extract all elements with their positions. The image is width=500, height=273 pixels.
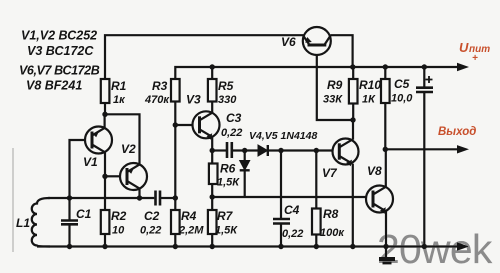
- wire: V3 base lead: [175, 124, 192, 126]
- resistor R10: [359, 67, 390, 149]
- wire: V4 to V7 base: [269, 149, 333, 151]
- wire: V2 collector down to tank wire: [138, 189, 140, 198]
- resistor R9: [323, 67, 358, 120]
- node: C1 bottom: [67, 244, 72, 249]
- transistor V3: [186, 93, 220, 140]
- node: V3 emitter / C3 / R6 junction: [210, 148, 215, 153]
- node: V7 emitter bottom: [350, 244, 355, 249]
- wire: V7 collector up: [352, 120, 354, 140]
- svg-text:U: U: [459, 40, 469, 55]
- svg-text:C1: C1: [76, 207, 92, 221]
- wire: R3 bottom down through V3 base to R4 top: [174, 102, 176, 211]
- svg-text:R8: R8: [323, 207, 339, 221]
- svg-text:100к: 100к: [320, 227, 345, 239]
- bottom rail arrow head: [457, 242, 469, 250]
- wire: V6 base down and right to R9 bottom: [317, 55, 353, 120]
- svg-text:330: 330: [218, 94, 237, 106]
- parts list text: [19, 29, 100, 93]
- wire: supply rail 2 from R3 top to Uпит arrow: [175, 67, 461, 79]
- node: R10 top on rail 2: [383, 64, 388, 69]
- wire: V8 collector up to output node: [385, 149, 387, 187]
- node: R7 bottom: [210, 244, 215, 249]
- svg-text:1,5К: 1,5К: [217, 177, 240, 189]
- diode V4: [249, 130, 317, 156]
- svg-text:470к: 470к: [144, 94, 170, 106]
- resistor R2: [101, 209, 127, 247]
- svg-text:R3: R3: [152, 79, 168, 93]
- svg-text:1К: 1К: [362, 94, 376, 106]
- resistor R7: [208, 197, 238, 247]
- wire: V1 base left and down to tank: [70, 140, 86, 198]
- wire: top rail from R1 top to V6 emitter: [105, 35, 304, 79]
- transistor V2: [120, 142, 147, 190]
- wire: output line to arrow: [385, 148, 461, 150]
- svg-text:V7: V7: [322, 166, 338, 180]
- svg-text:Выход: Выход: [438, 126, 476, 138]
- svg-text:V1: V1: [83, 155, 98, 169]
- wire: V2 base lead: [105, 175, 120, 177]
- svg-text:V6,V7 ВС172В: V6,V7 ВС172В: [19, 64, 100, 78]
- svg-text:V4,V5 1N4148: V4,V5 1N4148: [249, 130, 317, 142]
- ground: [379, 247, 395, 264]
- node: R4 bottom: [173, 244, 178, 249]
- transistor V8: [366, 164, 393, 214]
- node: V2 base tap: [102, 174, 107, 179]
- svg-text:0,22: 0,22: [221, 127, 242, 139]
- resistor R6: [209, 151, 240, 198]
- node: V8 emitter / ground: [383, 244, 388, 249]
- inductor L1: [16, 198, 50, 247]
- wire: R5 top lead: [211, 67, 213, 79]
- node: V5 tap: [242, 148, 247, 153]
- svg-text:0,22: 0,22: [282, 228, 303, 240]
- svg-text:V3 ВС172С: V3 ВС172С: [27, 44, 94, 58]
- Выход arrow head: [457, 145, 469, 153]
- wire: R1 bottom to junction: [104, 103, 106, 114]
- wire: R5 bottom to V3 collector: [211, 102, 213, 113]
- transistor V7: [322, 139, 359, 181]
- svg-text:V8 BF241: V8 BF241: [26, 79, 82, 93]
- capacitor C3: [212, 111, 242, 158]
- wire: V8 emitter down to bottom rail: [385, 211, 387, 246]
- node: V3 base tap: [173, 122, 178, 127]
- node: C2/R4/R3 junction: [173, 195, 178, 200]
- svg-text:1,5К: 1,5К: [215, 225, 238, 237]
- resistor R4: [171, 209, 204, 247]
- node: R10 bottom / V8 collector / output: [383, 147, 388, 152]
- node: C4 bottom: [278, 244, 283, 249]
- svg-text:+: +: [472, 53, 478, 64]
- resistor R3: [144, 79, 180, 106]
- svg-text:R4: R4: [181, 209, 197, 223]
- node: R5 top on rail 2: [210, 64, 215, 69]
- svg-text:R6: R6: [220, 162, 236, 176]
- watermark 20wek: [377, 226, 492, 273]
- svg-text:V3: V3: [186, 93, 201, 107]
- resistor R5: [208, 79, 237, 106]
- node: V1 base / C1 on tank wire: [67, 195, 72, 200]
- scan fold line (decorative): [12, 148, 14, 252]
- wire: C3 to diode V4: [233, 149, 258, 151]
- svg-text:V8: V8: [367, 164, 382, 178]
- node: R6/R7 junction: [210, 194, 215, 199]
- transistor V6: [281, 27, 331, 55]
- node: C5 bottom: [422, 244, 427, 249]
- node: R1/V1 emitter/V2 emitter junction: [102, 112, 107, 117]
- wire: V1 emitter up: [103, 114, 105, 128]
- svg-text:2,2М: 2,2М: [178, 225, 204, 237]
- svg-text:R9: R9: [327, 78, 343, 92]
- svg-text:R7: R7: [217, 209, 234, 223]
- wire: junction to V8 base: [212, 196, 366, 198]
- wire: V6 collector right and down to rail 2: [331, 35, 353, 67]
- node: V2 collector on tank wire: [137, 195, 142, 200]
- svg-text:V1,V2 ВС252: V1,V2 ВС252: [21, 29, 97, 43]
- capacitor C2: [140, 191, 175, 237]
- svg-text:V2: V2: [121, 142, 136, 156]
- wire: V1 collector down to R2: [104, 152, 106, 210]
- wire: V3 emitter down to C3 junction: [211, 137, 213, 150]
- svg-text:C4: C4: [284, 203, 300, 217]
- node: R8 tap / V7 base: [314, 148, 319, 153]
- svg-text:R5: R5: [218, 79, 234, 93]
- wire: bottom common rail: [37, 245, 461, 247]
- wire: tank top wire (coil to C2 left plate): [48, 197, 154, 199]
- transistor V1: [83, 127, 112, 170]
- svg-text:R1: R1: [111, 79, 127, 93]
- svg-text:33К: 33К: [323, 94, 343, 106]
- node: R9 bottom / V6 base / V7 collector: [350, 117, 355, 122]
- node: R8 bottom: [314, 244, 319, 249]
- svg-text:C2: C2: [144, 209, 160, 223]
- capacitor C1: [61, 198, 92, 247]
- svg-text:R2: R2: [111, 209, 127, 223]
- capacitor C4: [273, 151, 303, 247]
- svg-text:L1: L1: [16, 216, 30, 230]
- svg-text:R10: R10: [359, 78, 381, 92]
- net label Uпит: [459, 40, 490, 64]
- svg-text:C5: C5: [394, 77, 410, 91]
- capacitor C5: [391, 67, 433, 247]
- resistor R8: [312, 151, 345, 247]
- wire: V7 emitter down to bottom rail: [352, 164, 354, 247]
- node: R2 bottom: [102, 244, 107, 249]
- svg-text:10,0: 10,0: [391, 93, 413, 105]
- wire: junction to V2 emitter column: [105, 114, 140, 165]
- resistor R1: [101, 79, 127, 106]
- node: V6 collector / R9 top on rail 2: [350, 64, 355, 69]
- diode V5: [240, 151, 250, 198]
- node: C4 tap: [278, 148, 283, 153]
- svg-text:V6: V6: [281, 35, 296, 49]
- svg-text:0,22: 0,22: [140, 225, 161, 237]
- svg-text:10: 10: [112, 225, 125, 237]
- svg-text:1к: 1к: [113, 94, 126, 106]
- node: C5 top on rail 2: [422, 64, 427, 69]
- svg-text:C3: C3: [226, 111, 242, 125]
- Uпит arrow head: [457, 63, 469, 71]
